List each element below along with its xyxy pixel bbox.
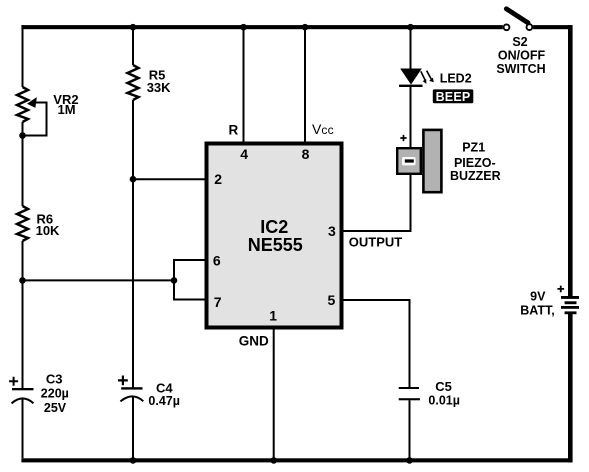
svg-text:33K: 33K: [147, 80, 171, 95]
svg-text:BEEP: BEEP: [436, 90, 471, 104]
svg-text:PIEZO-: PIEZO-: [454, 156, 496, 170]
svg-text:2: 2: [214, 171, 222, 187]
svg-text:R: R: [229, 123, 239, 138]
svg-text:1: 1: [269, 308, 277, 324]
svg-text:25V: 25V: [44, 401, 67, 415]
svg-text:1M: 1M: [58, 102, 76, 117]
svg-text:S2: S2: [512, 35, 527, 49]
svg-text:BATT,: BATT,: [520, 303, 555, 317]
svg-text:OUTPUT: OUTPUT: [349, 235, 403, 250]
svg-text:PZ1: PZ1: [462, 140, 485, 154]
svg-text:C5: C5: [435, 379, 452, 394]
svg-text:0.47µ: 0.47µ: [148, 394, 180, 408]
svg-text:C3: C3: [46, 372, 63, 387]
svg-text:7: 7: [214, 294, 222, 310]
svg-text:ON/OFF: ON/OFF: [498, 49, 546, 63]
svg-text:220µ: 220µ: [41, 387, 69, 401]
svg-text:NE555: NE555: [248, 235, 303, 255]
svg-text:3: 3: [328, 223, 336, 239]
svg-text:10K: 10K: [36, 223, 60, 238]
svg-text:6: 6: [213, 253, 221, 269]
svg-text:LED2: LED2: [440, 72, 472, 86]
svg-text:Vcc: Vcc: [312, 121, 334, 137]
svg-text:0.01µ: 0.01µ: [428, 394, 460, 408]
svg-text:SWITCH: SWITCH: [496, 62, 545, 76]
svg-text:IC2: IC2: [260, 217, 288, 237]
svg-text:4: 4: [240, 146, 248, 162]
svg-text:5: 5: [328, 292, 336, 308]
svg-text:9V: 9V: [530, 289, 546, 303]
svg-text:BUZZER: BUZZER: [450, 169, 501, 183]
svg-text:GND: GND: [239, 334, 269, 349]
svg-text:8: 8: [302, 146, 310, 162]
